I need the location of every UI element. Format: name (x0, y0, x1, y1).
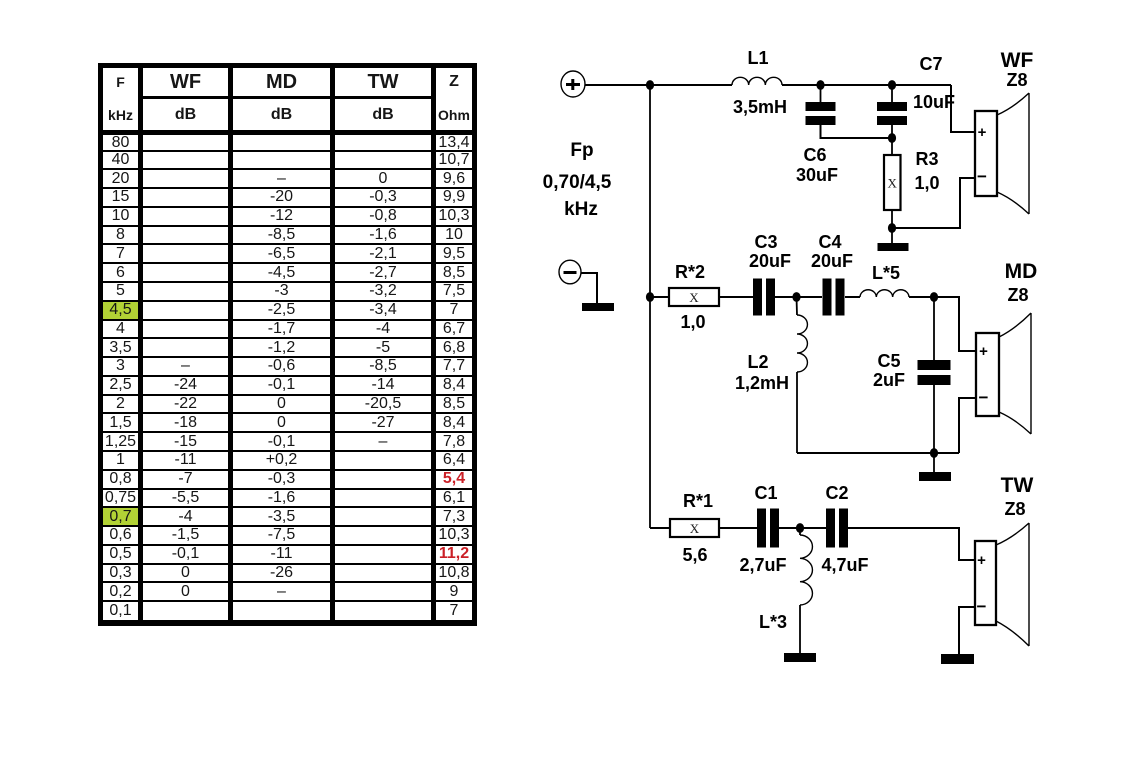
svg-text:20uF: 20uF (811, 251, 853, 271)
capacitor C2 (826, 509, 848, 548)
wire C5 bottom lead (933, 385, 935, 472)
inductor L*5 (860, 290, 909, 297)
ground GND input (582, 303, 614, 311)
junction node C7 top (888, 80, 896, 90)
resistor R*1 (670, 519, 719, 537)
speaker MD Z8 (976, 313, 1031, 434)
inductor L1 (732, 77, 782, 85)
svg-text:R*1: R*1 (683, 491, 713, 511)
svg-text:C1: C1 (754, 483, 777, 503)
svg-text:2uF: 2uF (873, 370, 905, 390)
inductor L*3 (800, 535, 812, 605)
svg-text:Z8: Z8 (1007, 285, 1028, 305)
capacitor C1 (757, 509, 779, 548)
speaker WF Z8 (975, 93, 1029, 214)
svg-text:X: X (690, 521, 700, 536)
svg-text:R*2: R*2 (675, 262, 705, 282)
svg-text:Z8: Z8 (1004, 499, 1025, 519)
ground GND WF (878, 243, 909, 251)
svg-text:C6: C6 (803, 145, 826, 165)
capacitor C7 (877, 102, 907, 125)
svg-text:kHz: kHz (564, 199, 598, 220)
junction node MD branch (646, 292, 654, 302)
ground GND TW (941, 654, 974, 664)
wire main bus vertical (649, 85, 651, 528)
svg-text:C7: C7 (919, 54, 942, 74)
terminal plus input (561, 71, 585, 97)
junction node IN top (646, 80, 654, 90)
svg-text:30uF: 30uF (796, 165, 838, 185)
resistor R3 (884, 155, 901, 210)
svg-text:+: + (977, 552, 986, 569)
junction node MD bottom (930, 448, 938, 458)
wire bus to R*1 (650, 527, 670, 529)
svg-text:C3: C3 (754, 232, 777, 252)
wire C7 bottom lead (891, 125, 893, 155)
svg-text:C2: C2 (825, 483, 848, 503)
capacitor C4 (823, 279, 845, 316)
svg-text:C4: C4 (818, 232, 841, 252)
wire MD minus (959, 398, 976, 453)
svg-text:10uF: 10uF (913, 92, 955, 112)
terminal minus input (559, 260, 581, 284)
svg-text:L2: L2 (747, 352, 768, 372)
junction node C1-C2-L*3 (796, 523, 804, 533)
svg-text:L1: L1 (747, 48, 768, 68)
svg-text:WF: WF (1001, 49, 1034, 72)
wire R*1 to C1 (719, 527, 757, 529)
wire WF minus return (892, 178, 975, 228)
wire C4 to L*5 (845, 296, 860, 298)
wire C2 to TW plus (848, 528, 975, 560)
inductor L2 (797, 315, 807, 372)
svg-text:+: + (979, 343, 988, 360)
wire L*3 bottom lead (799, 605, 801, 653)
capacitor C6 (806, 102, 836, 125)
junction node C3-C4-L2 (792, 292, 800, 302)
speaker TW Z8 (975, 523, 1029, 646)
svg-text:Fp: Fp (570, 140, 593, 161)
junction node C6 top (816, 80, 824, 90)
svg-text:−: − (977, 597, 987, 616)
wire C1 to C2 (779, 527, 826, 529)
svg-text:20uF: 20uF (749, 251, 791, 271)
svg-text:L*3: L*3 (759, 612, 787, 632)
wire C6 bottom to R3 node (821, 125, 893, 138)
wire L*5 to C5 node (909, 296, 934, 298)
svg-text:R3: R3 (915, 149, 938, 169)
wire to WF plus (951, 85, 975, 132)
wire C3 to C4 (775, 296, 822, 298)
junction node R3 bottom (888, 223, 896, 233)
svg-text:5,6: 5,6 (682, 545, 707, 565)
wire to MD plus (934, 297, 976, 351)
capacitor C5 (918, 360, 951, 385)
ground GND L*3 (784, 653, 816, 662)
wire L2 bottom lead (796, 372, 798, 453)
wire input to L1 (585, 84, 732, 86)
wire L1 to C7 node (782, 84, 951, 86)
wire L*3 top lead (799, 528, 801, 535)
svg-text:1,0: 1,0 (914, 173, 939, 193)
svg-text:Z8: Z8 (1006, 70, 1027, 90)
resistor R*2 (669, 288, 719, 306)
svg-text:0,70/4,5: 0,70/4,5 (543, 172, 612, 193)
wire C5 top lead (933, 297, 935, 360)
svg-text:3,5mH: 3,5mH (733, 97, 787, 117)
svg-text:X: X (888, 176, 898, 191)
wire MD bottom return (797, 452, 959, 454)
junction node C5 top (930, 292, 938, 302)
svg-text:+: + (978, 124, 987, 141)
svg-text:1,2mH: 1,2mH (735, 373, 789, 393)
junction node C6-C7-R3 (888, 133, 896, 143)
svg-text:MD: MD (1005, 260, 1038, 283)
svg-text:−: − (979, 388, 989, 407)
wire C7 top lead (891, 85, 893, 102)
wire bus to R*2 (650, 296, 669, 298)
svg-text:C5: C5 (877, 351, 900, 371)
wire L2 top lead (796, 297, 799, 315)
wire R*2 to C3 (719, 296, 753, 298)
svg-text:TW: TW (1001, 474, 1034, 497)
svg-text:X: X (689, 290, 699, 305)
svg-text:2,7uF: 2,7uF (739, 555, 786, 575)
ground GND MD (919, 472, 951, 481)
svg-text:L*5: L*5 (872, 263, 900, 283)
wire R3 bottom lead (891, 210, 893, 243)
capacitor C3 (753, 279, 775, 316)
svg-text:4,7uF: 4,7uF (821, 555, 868, 575)
wire C6 top lead (820, 85, 822, 102)
svg-text:1,0: 1,0 (680, 312, 705, 332)
svg-text:−: − (977, 167, 987, 186)
wire TW minus (959, 607, 975, 654)
wire minus terminal to ground (581, 273, 597, 303)
